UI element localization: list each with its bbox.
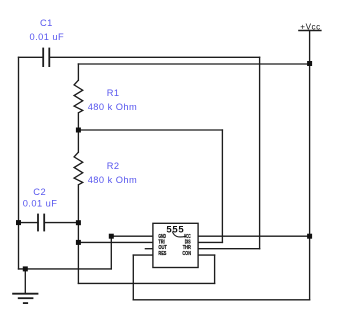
wire bottom Vcc run <box>133 299 309 301</box>
junction ground <box>23 266 28 271</box>
wire GND riser <box>110 236 112 269</box>
wire VCC pin <box>198 235 310 237</box>
svg-text:R1: R1 <box>107 88 120 98</box>
svg-text:CON: CON <box>182 251 191 257</box>
capacitor C2 <box>38 214 44 232</box>
junction R1 / R2 / DIS <box>76 128 81 133</box>
junction R2 bottom / C2 <box>76 220 81 225</box>
svg-text:480 k Ohm: 480 k Ohm <box>88 175 138 185</box>
wire DIS riser <box>221 130 223 242</box>
svg-text:480 k Ohm: 480 k Ohm <box>88 102 138 112</box>
junction Vcc / VCC pin <box>307 234 312 239</box>
resistor R2 <box>74 152 83 185</box>
svg-text:RES: RES <box>158 251 166 257</box>
wire R1 top to Vcc <box>78 63 309 65</box>
wire C2 left <box>19 222 39 224</box>
junction GND riser <box>109 234 114 239</box>
wire R1 top lead <box>77 64 79 80</box>
wire THR riser <box>259 57 261 248</box>
wire CON bottom run <box>78 282 214 284</box>
wire C2 right <box>44 222 78 224</box>
wire RES riser <box>132 255 134 300</box>
power +Vcc symbol <box>298 22 321 31</box>
wire R1 bottom to DIS riser <box>78 129 222 131</box>
wire Vcc rail <box>309 31 311 300</box>
svg-text:+Vcc: +Vcc <box>300 22 320 31</box>
svg-text:0.01 uF: 0.01 uF <box>23 199 58 209</box>
wire THR pin <box>198 248 260 250</box>
wire R2 top lead <box>77 130 79 152</box>
junction left rail / C2 <box>16 220 21 225</box>
wire GND pin <box>111 235 153 237</box>
IC U1 notch <box>172 232 186 237</box>
junction Vcc top <box>307 61 312 66</box>
wire ground stem <box>24 269 26 294</box>
wire CON riser <box>214 255 216 283</box>
IC U1 555 timer body <box>153 223 198 267</box>
wire ground run <box>19 268 112 270</box>
capacitor C1 <box>43 48 49 67</box>
wire TRI pin <box>78 241 152 243</box>
svg-text:555: 555 <box>166 225 184 236</box>
junction R2 / TRI <box>76 240 81 245</box>
svg-text:C2: C2 <box>33 187 46 197</box>
svg-text:0.01 uF: 0.01 uF <box>30 32 65 42</box>
wire RES pin <box>133 254 153 256</box>
wire top left to C1 <box>19 56 43 58</box>
wire R2 bottom lead down to CON run <box>77 185 79 284</box>
wire OUT pin stub <box>145 248 153 250</box>
svg-text:C1: C1 <box>40 18 53 28</box>
wire CON pin <box>198 254 215 256</box>
wire DIS pin <box>198 241 222 243</box>
wire C1 to THR riser <box>50 56 260 58</box>
resistor R1 <box>74 80 83 113</box>
wire R1 bottom lead <box>77 113 79 130</box>
svg-text:R2: R2 <box>107 161 120 171</box>
ground symbol <box>12 294 38 303</box>
wire left ground rail <box>18 57 20 269</box>
